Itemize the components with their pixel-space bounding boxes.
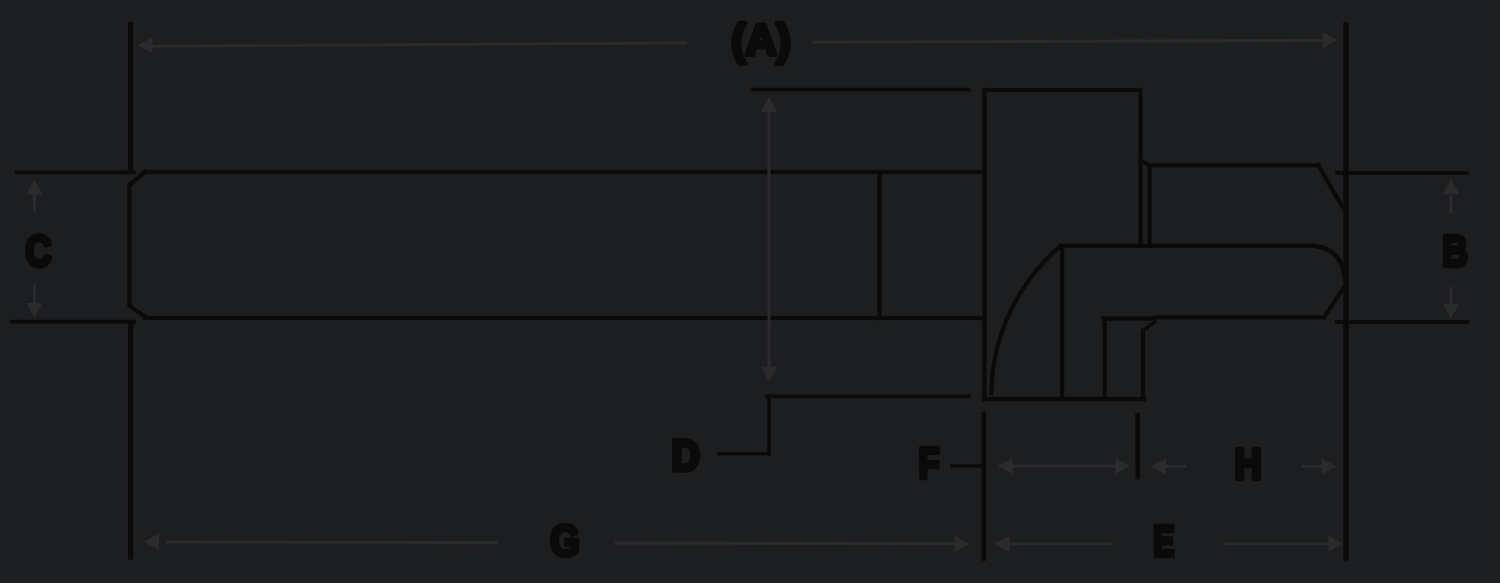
- left extension line (bottom segment): [128, 323, 133, 558]
- F leader horizontal: [952, 464, 982, 468]
- label C: [25, 227, 51, 276]
- dim B arrowhead up: [1443, 179, 1459, 195]
- flange-to-shaft chamfer: [1140, 160, 1149, 165]
- dim G stem left: [166, 540, 498, 544]
- dim H arrowhead right: [1322, 459, 1337, 475]
- shaft top edge: [145, 170, 984, 174]
- right shaft right edge: [1344, 213, 1348, 250]
- svg-text:G: G: [550, 516, 579, 565]
- dim B arrowhead down: [1443, 304, 1459, 319]
- label E: [1153, 517, 1174, 566]
- svg-text:F: F: [919, 439, 940, 488]
- D leader riser: [767, 396, 771, 454]
- svg-text:H: H: [1234, 439, 1261, 488]
- C witness line bottom: [12, 320, 134, 324]
- flange top edge: [985, 88, 1141, 92]
- dim E stem left: [1008, 542, 1113, 545]
- dim F arrowhead left: [998, 458, 1013, 474]
- label (A): [731, 16, 790, 65]
- svg-text:(A): (A): [731, 16, 790, 65]
- lower step right edge: [1141, 331, 1145, 399]
- svg-text:E: E: [1153, 517, 1174, 566]
- C witness line top: [17, 170, 134, 174]
- label G: [550, 516, 579, 565]
- D leader horizontal: [719, 452, 769, 456]
- dim D arrowhead up: [761, 97, 777, 112]
- hub bottom edge: [1104, 317, 1325, 318]
- dim C arrowhead up: [26, 179, 42, 194]
- svg-text:C: C: [25, 227, 51, 276]
- part bottom edge: [985, 397, 1145, 402]
- flange right edge: [1138, 90, 1142, 244]
- dim A stem left: [153, 43, 688, 46]
- left extension line (top segment): [128, 25, 133, 171]
- dim G stem right: [615, 542, 956, 546]
- dim E arrowhead right: [1329, 536, 1344, 552]
- svg-text:D: D: [671, 431, 700, 480]
- label D: [671, 431, 700, 480]
- dim A arrowhead left: [137, 37, 152, 53]
- dim C arrowhead down: [26, 303, 42, 318]
- lower step left edge: [1103, 319, 1107, 400]
- right extension line: [1343, 25, 1348, 558]
- dim H arrowhead left: [1151, 459, 1166, 475]
- D witness line top: [753, 88, 969, 92]
- dim F stem: [1010, 465, 1116, 468]
- dim E arrowhead left: [994, 536, 1009, 552]
- dim A arrowhead right: [1323, 32, 1337, 48]
- dim A stem right: [812, 41, 1323, 43]
- dim C stem upper: [33, 193, 36, 212]
- B witness line top: [1337, 171, 1467, 175]
- label H: [1234, 439, 1261, 488]
- lower step chamfer: [1142, 321, 1156, 332]
- groove line at shaft root: [1148, 166, 1152, 244]
- bottom-middle extension line (E/H boundary): [1135, 415, 1140, 477]
- dim G arrowhead left: [144, 534, 159, 550]
- B witness line bottom: [1337, 320, 1467, 324]
- label B: [1442, 227, 1467, 276]
- hub top edge: [1061, 244, 1314, 248]
- bottom-left extension line (flange left, below part): [981, 414, 986, 559]
- D witness line bottom: [767, 394, 969, 398]
- dim H stem left: [1164, 465, 1186, 468]
- hub left edge: [1060, 246, 1064, 399]
- hub web arc: [991, 246, 1060, 393]
- dim H stem right: [1302, 465, 1324, 468]
- dim F arrowhead right: [1115, 458, 1130, 474]
- dim B stem lower: [1450, 287, 1453, 305]
- dim E stem right: [1223, 542, 1329, 545]
- shaft section line: [877, 172, 881, 318]
- shaft left end chamfered face: [130, 172, 146, 317]
- shaft bottom edge: [145, 316, 984, 320]
- svg-text:B: B: [1442, 227, 1467, 276]
- flange left edge: [982, 90, 986, 399]
- label F: [919, 439, 940, 488]
- right shaft top edge: [1150, 163, 1319, 167]
- dim D arrowhead down: [761, 367, 777, 382]
- dim C stem lower: [33, 284, 36, 304]
- dim D stem: [768, 111, 771, 368]
- dim G arrowhead right: [955, 536, 970, 552]
- hub rounded nose: [1314, 246, 1346, 318]
- dim B stem upper: [1450, 195, 1453, 214]
- right shaft end chamfer: [1318, 165, 1346, 213]
